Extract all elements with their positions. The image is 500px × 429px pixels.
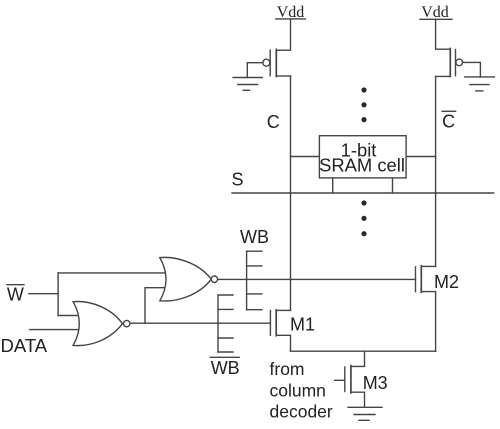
svg-text:C: C	[267, 112, 280, 132]
wire SRAM cell to S (right stub)	[392, 178, 394, 193]
wire left pull-up gate to ground	[247, 63, 263, 78]
svg-text:M3: M3	[363, 373, 388, 393]
ground (left pull-up gate)	[233, 78, 262, 91]
wire bit line C-bar	[435, 76, 437, 266]
svg-text:Vdd: Vdd	[421, 4, 449, 21]
svg-text:decoder: decoder	[270, 402, 333, 422]
wire W-bar to G2 top input	[58, 315, 82, 317]
write pass gate stack WB	[247, 251, 262, 310]
svg-text:WB: WB	[240, 227, 269, 247]
wire W-bar to G1 top input	[58, 272, 168, 274]
svg-text:column: column	[270, 381, 326, 401]
column dots above SRAM cell	[361, 87, 366, 122]
svg-text:DATA: DATA	[1, 335, 48, 356]
svg-text:WB: WB	[211, 358, 240, 378]
wire G1 output to M2 gate	[218, 278, 416, 280]
pmos pull-up (left bit line)	[263, 49, 277, 76]
node label C-bar	[442, 111, 456, 131]
transistor M1	[270, 310, 290, 351]
svg-text:M1: M1	[290, 315, 315, 335]
wire Vdd to left pull-up drain	[276, 19, 290, 50]
wire common node to M3 drain	[351, 351, 365, 366]
write pass gate stack WB-bar	[218, 295, 233, 352]
transistor M2	[416, 266, 436, 351]
svg-text:SRAM cell: SRAM cell	[319, 155, 405, 176]
transistor M3	[335, 366, 365, 407]
wire Vdd to right pull-up drain	[436, 19, 451, 49]
ground (right pull-up gate)	[465, 77, 495, 91]
wire bit line C to SRAM cell	[291, 156, 320, 158]
svg-text:C: C	[442, 112, 455, 132]
wire right pull-up source	[436, 75, 451, 77]
nor gate G2 (bottom)	[73, 302, 130, 346]
wire common write node	[291, 350, 436, 352]
wire right pull-up gate to ground	[463, 62, 481, 77]
svg-text:from: from	[270, 359, 305, 379]
wire SRAM cell to S (left stub)	[332, 178, 334, 193]
wire DATA to G2 bottom input	[30, 329, 84, 331]
Vdd rail (right)	[420, 18, 452, 20]
wire W-bar input	[29, 293, 58, 295]
wire G2 output to G1 bottom input riser	[145, 288, 169, 324]
svg-text:M2: M2	[434, 272, 459, 292]
wire W-bar branch riser	[57, 273, 59, 316]
svg-text:S: S	[232, 169, 244, 189]
wire G2 output to M1 gate	[130, 322, 271, 324]
net label W-bar	[7, 284, 24, 304]
wire bit line C	[290, 76, 292, 310]
svg-text:W: W	[7, 284, 24, 304]
block 1-bit SRAM cell	[319, 136, 406, 178]
ground (M3 source)	[348, 407, 382, 420]
text from column decoder	[270, 359, 333, 422]
wire SRAM cell to bit line C-bar	[406, 156, 436, 158]
net label WB-bar	[210, 357, 240, 378]
nor gate G1 (top)	[160, 257, 218, 301]
wire left pull-up source	[276, 75, 290, 77]
wire word line S	[232, 192, 494, 194]
Vdd rail (left)	[276, 18, 306, 20]
pmos pull-up (right bit line)	[450, 49, 462, 77]
column dots below word line S	[361, 200, 366, 236]
